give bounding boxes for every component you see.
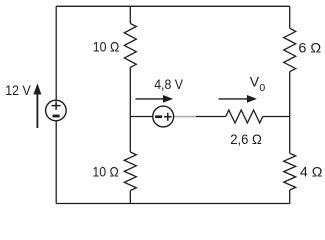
svg-text:4 Ω: 4 Ω	[300, 164, 323, 180]
arrow 12V source direction	[33, 83, 41, 128]
svg-text:0: 0	[259, 82, 265, 94]
voltage source V2 plus sign	[164, 113, 172, 121]
wire left upper	[55, 6, 57, 100]
wire branch right	[263, 116, 290, 118]
resistor R2 10ohm bottom	[124, 152, 136, 191]
wire branch left	[130, 116, 153, 118]
resistor R5 2.6ohm	[226, 110, 263, 123]
voltage source V2 4.8V circle	[153, 106, 174, 127]
svg-text:2,6 Ω: 2,6 Ω	[230, 131, 262, 147]
voltage source V1 12V circle	[46, 100, 67, 121]
svg-text:6 Ω: 6 Ω	[298, 39, 321, 55]
label V0	[250, 74, 266, 95]
svg-text:4,8 V: 4,8 V	[154, 76, 183, 92]
wire top	[56, 5, 290, 7]
resistor R4 4ohm	[284, 153, 296, 190]
resistor R3 6ohm	[284, 28, 296, 71]
arrow V0 direction	[219, 95, 258, 103]
wire right center	[289, 72, 291, 154]
wire bottom	[56, 203, 290, 205]
wire middle center	[129, 67, 131, 152]
svg-text:V: V	[250, 74, 260, 90]
wire branch grey	[174, 116, 196, 118]
voltage source V1 plus sign	[52, 101, 61, 110]
svg-text:12 V: 12 V	[5, 82, 31, 98]
voltage source V2 minus bar	[155, 115, 162, 118]
wire left lower	[55, 121, 57, 204]
wire middle top	[129, 6, 131, 23]
voltage source V1 minus bar	[53, 115, 60, 118]
arrow 4.8V source direction	[135, 95, 173, 103]
resistor R1 10ohm top	[124, 23, 136, 67]
svg-text:10 Ω: 10 Ω	[92, 164, 118, 180]
wire right bottom	[289, 190, 291, 204]
wire branch mid	[196, 116, 226, 118]
wire right top	[289, 6, 291, 28]
svg-text:10 Ω: 10 Ω	[93, 39, 119, 55]
wire middle bottom	[129, 191, 131, 204]
